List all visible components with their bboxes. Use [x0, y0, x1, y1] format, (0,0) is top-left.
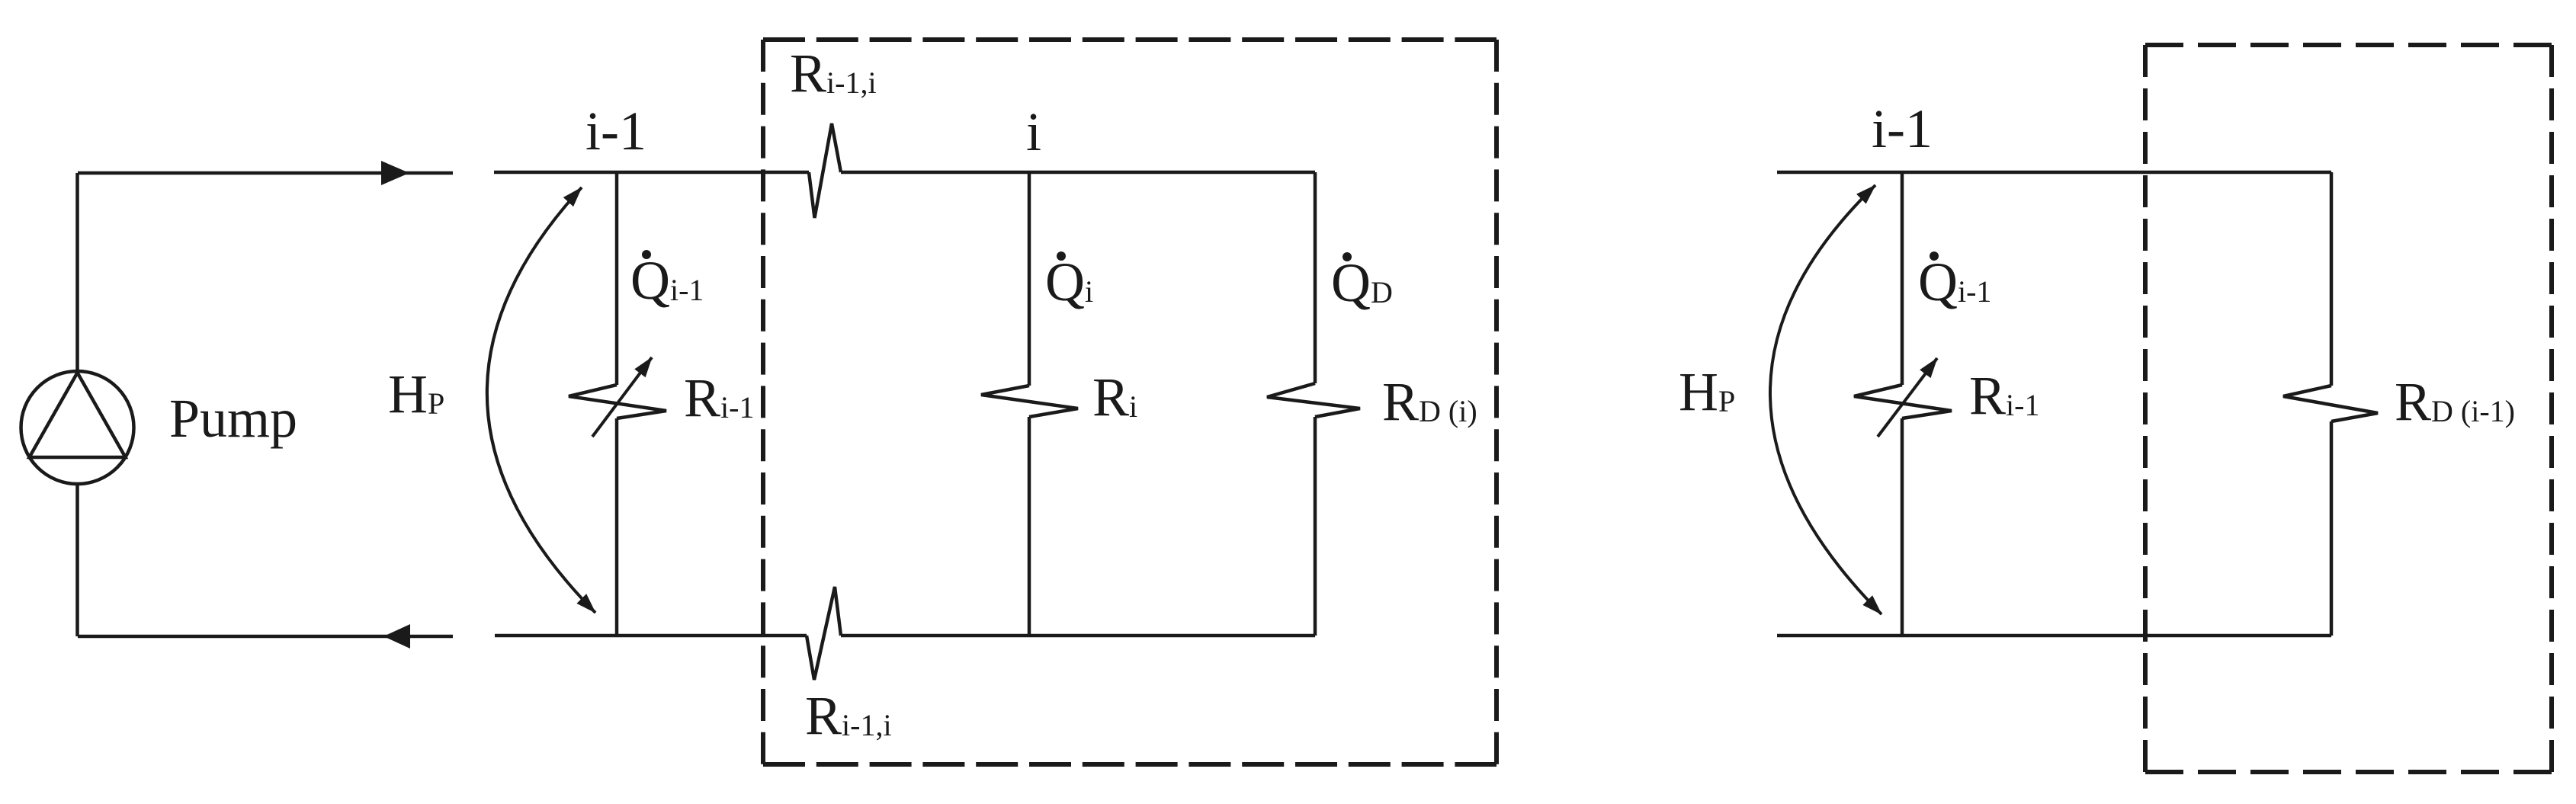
svg-text:Ri-1: Ri-1	[684, 367, 754, 428]
dashed boundary box (section i-1) bottom edge	[2145, 770, 2552, 774]
wire: branch i-1 lower	[615, 418, 619, 636]
svg-text:i-1: i-1	[1872, 98, 1933, 159]
svg-text:Qi-1: Qi-1	[1918, 251, 1991, 312]
wire: right branch i-1 lower	[1901, 418, 1904, 636]
pump P1 (circle)	[21, 371, 134, 484]
dashed boundary box (section i) top edge	[763, 37, 1497, 42]
variable resistor R_i-1 (zigzag)	[569, 385, 666, 418]
resistor R_i-1,i (top, on bus)	[809, 123, 841, 218]
dashed boundary box (section i) bottom edge	[763, 762, 1497, 767]
H_P arc arrow (left circuit)	[487, 187, 595, 613]
svg-text:Pump: Pump	[169, 388, 297, 449]
svg-text:HP: HP	[388, 364, 444, 424]
wire: branch D(i-1) upper	[2330, 172, 2334, 386]
wire: top bus right segment	[841, 171, 1315, 175]
wire: branch i	[1028, 172, 1031, 386]
wire: branch D(i) top corner	[1314, 172, 1317, 383]
dot of Q_D	[1343, 252, 1352, 261]
svg-text:Qi: Qi	[1045, 251, 1093, 312]
dot of Q_i-1 (left circuit)	[642, 250, 651, 259]
H_P arc arrow (right circuit)	[1770, 185, 1881, 614]
wire: right circuit top bus	[1777, 171, 2331, 175]
variable resistor R_i-1 right (zigzag)	[1854, 385, 1952, 418]
svg-text:Ri: Ri	[1092, 367, 1137, 428]
svg-text:i: i	[1026, 101, 1041, 162]
dot of Q_i	[1057, 251, 1066, 261]
resistor R_D(i-1) (zigzag)	[2283, 386, 2378, 421]
svg-text:i-1: i-1	[585, 101, 646, 162]
wire: pump loop bottom	[78, 635, 453, 639]
resistor R_D(i) (zigzag)	[1267, 383, 1360, 417]
wire: branch i lower	[1028, 417, 1031, 636]
svg-text:Ri-1,i: Ri-1,i	[790, 43, 877, 104]
dashed boundary box (section i-1) top edge	[2145, 43, 2552, 47]
wire: right branch i-1 upper	[1901, 172, 1904, 385]
dashed boundary box (section i) right edge	[1494, 40, 1499, 764]
wire: pump loop left upper	[75, 173, 79, 372]
svg-text:QD: QD	[1331, 252, 1393, 313]
svg-text:HP: HP	[1679, 361, 1735, 422]
dashed boundary box (section i-1) right edge	[2549, 45, 2554, 772]
svg-text:Ri-1: Ri-1	[1969, 365, 2039, 426]
pump P1 (triangle)	[30, 373, 126, 457]
wire: branch D(i-1) lower	[2330, 421, 2334, 636]
wire: bottom bus right segment	[841, 634, 1315, 638]
svg-text:RD (i): RD (i)	[1382, 371, 1477, 432]
wire: bottom bus left segment	[495, 634, 807, 638]
flow arrow (bottom, pointing left)	[383, 624, 410, 649]
dot of Q_i-1 (right circuit)	[1930, 251, 1939, 261]
wire: branch D(i) lower	[1314, 417, 1317, 636]
variable resistor R_i-1 (arrow)	[592, 357, 652, 437]
variable resistor R_i-1 right (arrow)	[1878, 358, 1937, 437]
wire: branch i-1 upper	[615, 172, 619, 385]
wire: pump loop top	[78, 171, 453, 175]
flow arrow (top, pointing right)	[381, 161, 409, 185]
resistor R_i-1,i (bottom, on bus)	[807, 587, 841, 680]
wire: right circuit bottom bus	[1777, 634, 2331, 638]
svg-text:Qi-1: Qi-1	[630, 250, 704, 311]
svg-text:RD (i-1): RD (i-1)	[2395, 371, 2515, 432]
resistor R_i (zigzag)	[981, 386, 1078, 417]
dashed boundary box (section i-1) left edge	[2143, 45, 2148, 772]
svg-text:Ri-1,i: Ri-1,i	[805, 685, 892, 746]
wire: top bus left segment	[494, 171, 809, 175]
dashed boundary box (section i) left edge	[761, 40, 765, 764]
wire: pump loop left lower	[75, 483, 79, 636]
